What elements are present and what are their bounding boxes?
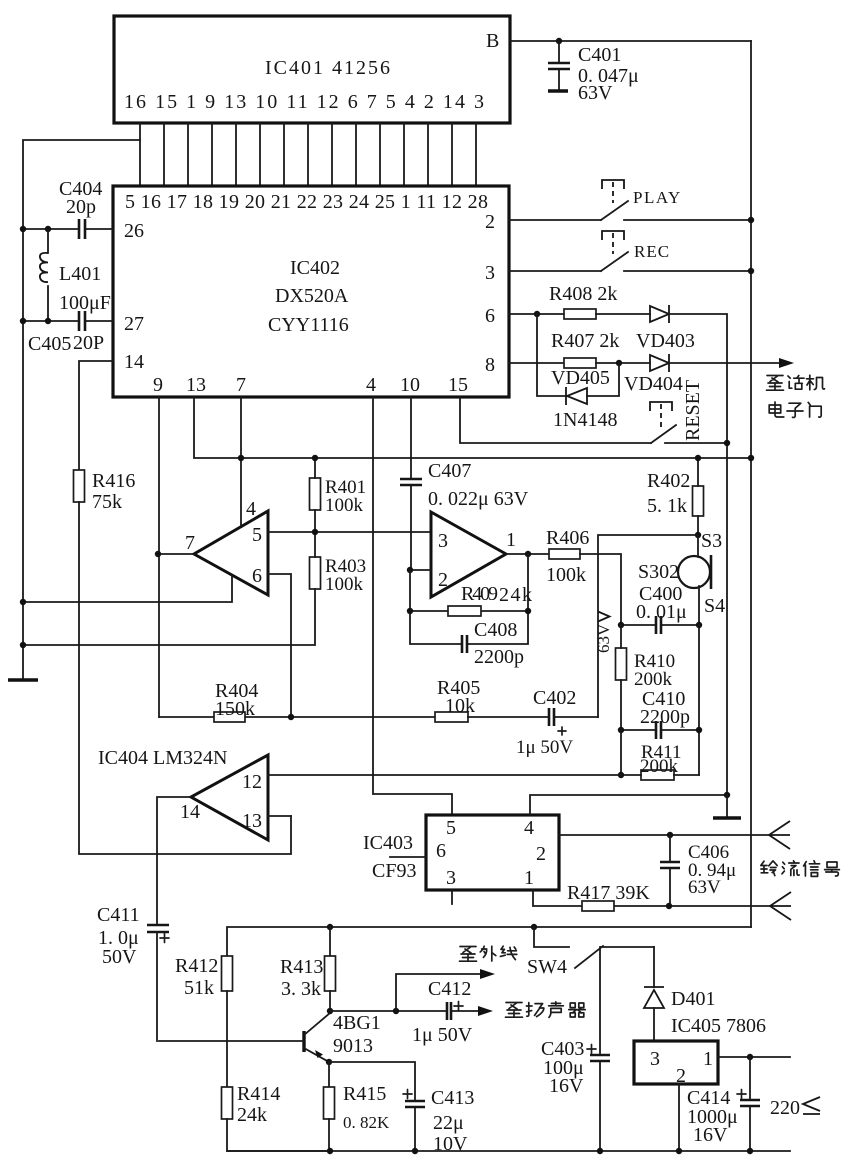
resistor R412 bbox=[222, 956, 233, 991]
svg-text:S4: S4 bbox=[704, 595, 725, 617]
diode D401 bbox=[653, 947, 655, 1041]
svg-text:6: 6 bbox=[252, 565, 262, 587]
resistor R413 bbox=[329, 927, 331, 956]
wire IC405 pin1 bbox=[718, 1056, 790, 1058]
wire IC403 pin4 to ground bbox=[530, 795, 727, 815]
resistor R402 bbox=[693, 486, 704, 516]
63V supply line bbox=[598, 535, 698, 717]
wire pin26 bbox=[23, 228, 113, 230]
wire B to right rail bbox=[510, 40, 751, 42]
wire pin13 to bias net bbox=[194, 397, 751, 458]
svg-text:R413: R413 bbox=[280, 956, 323, 978]
svg-text:C402: C402 bbox=[533, 687, 576, 709]
wire U1 pin6 bbox=[268, 574, 291, 717]
svg-text:1μ 50V: 1μ 50V bbox=[516, 737, 573, 758]
svg-text:IC404 LM324N: IC404 LM324N bbox=[98, 747, 227, 769]
svg-text:63V: 63V bbox=[688, 877, 721, 898]
svg-text:C407: C407 bbox=[428, 460, 471, 482]
svg-text:2200p: 2200p bbox=[640, 706, 690, 728]
svg-text:R416: R416 bbox=[92, 470, 135, 492]
svg-text:4: 4 bbox=[524, 817, 534, 839]
collector node wires bbox=[330, 1010, 478, 1012]
wire U2 pin2 bbox=[410, 569, 431, 571]
capacitor C412 bbox=[447, 1002, 451, 1020]
diode VD403 bbox=[650, 305, 669, 323]
svg-text:4: 4 bbox=[246, 498, 256, 520]
IC401 pin wires to IC402 bbox=[140, 123, 476, 186]
wire U1 out pin7 bbox=[158, 553, 194, 555]
wire IC403 pin3 stub bbox=[451, 890, 453, 904]
svg-text:VD403: VD403 bbox=[636, 330, 695, 352]
capacitor C406 bbox=[669, 835, 671, 906]
svg-text:IC405 7806: IC405 7806 bbox=[671, 1015, 766, 1037]
svg-text:6: 6 bbox=[485, 305, 495, 327]
svg-text:6: 6 bbox=[436, 840, 446, 862]
resistor R406 bbox=[549, 549, 580, 559]
svg-text:100k: 100k bbox=[325, 495, 364, 516]
svg-text:1μ 50V: 1μ 50V bbox=[412, 1024, 473, 1046]
svg-text:20P: 20P bbox=[73, 332, 104, 354]
op-amp U2 (IC404b) bbox=[431, 512, 506, 597]
svg-text:R415: R415 bbox=[343, 1083, 386, 1105]
svg-text:2200p: 2200p bbox=[474, 646, 524, 668]
svg-text:14: 14 bbox=[180, 801, 200, 823]
svg-text:5 16 17 18 19 20 21 22 23: 5 16 17 18 19 20 21 22 23 24 25 1 11 12 … bbox=[125, 191, 488, 213]
svg-text:S3: S3 bbox=[701, 530, 722, 552]
svg-text:REC: REC bbox=[634, 242, 670, 261]
svg-text:200k: 200k bbox=[634, 669, 673, 690]
svg-text:3. 3k: 3. 3k bbox=[281, 978, 321, 1000]
resistor R411 bbox=[641, 770, 674, 780]
wire pin9 down bbox=[158, 397, 160, 717]
node S3 bbox=[695, 532, 701, 538]
svg-text:15: 15 bbox=[448, 374, 468, 396]
op-amp U1 (IC404a) bbox=[194, 511, 268, 595]
svg-text:3: 3 bbox=[485, 262, 495, 284]
svg-text:3: 3 bbox=[438, 530, 448, 552]
svg-text:R408 2k: R408 2k bbox=[549, 283, 617, 305]
svg-text:2: 2 bbox=[438, 569, 448, 591]
ground (C401) bbox=[548, 89, 568, 92]
svg-text:2: 2 bbox=[536, 843, 546, 865]
svg-text:L401: L401 bbox=[59, 263, 101, 285]
wire U1 pin5 to U2 pin3 bbox=[268, 531, 431, 533]
ground rail bottom bbox=[227, 1150, 790, 1152]
ground (IC403) bbox=[713, 816, 741, 819]
svg-text:R407 2k: R407 2k bbox=[551, 330, 619, 352]
emitter node bbox=[326, 1059, 332, 1065]
wire / arrow to outside line bbox=[396, 974, 481, 1011]
connector arrow ring lower bbox=[770, 892, 791, 920]
svg-text:C412: C412 bbox=[428, 978, 471, 1000]
svg-text:R414: R414 bbox=[237, 1083, 280, 1105]
svg-text:CF93: CF93 bbox=[372, 860, 416, 882]
svg-text:1: 1 bbox=[506, 529, 516, 551]
label ring signal (Chinese) bbox=[761, 861, 840, 877]
speaker S302 bbox=[678, 556, 710, 588]
svg-text:16V: 16V bbox=[693, 1124, 728, 1146]
resistor R409 feedback bbox=[410, 554, 528, 644]
svg-text:3: 3 bbox=[650, 1048, 660, 1070]
node B/C401 junction bbox=[556, 38, 562, 44]
capacitor C405 bbox=[79, 311, 85, 331]
svg-text:VD404: VD404 bbox=[624, 373, 683, 395]
svg-text:24k: 24k bbox=[237, 1104, 267, 1126]
svg-text:5: 5 bbox=[252, 524, 262, 546]
arrow to loudspeaker bbox=[478, 1006, 493, 1016]
diode VD405 loop bbox=[537, 314, 619, 396]
svg-text:S302: S302 bbox=[638, 561, 679, 583]
capacitor C413 bbox=[329, 1062, 415, 1151]
svg-text:R402: R402 bbox=[647, 470, 690, 492]
switch SW4 bbox=[534, 927, 654, 947]
wire U3 out pin14 bbox=[157, 797, 191, 925]
resistor R410 bbox=[616, 648, 627, 680]
svg-text:63V: 63V bbox=[594, 623, 613, 653]
svg-text:C411: C411 bbox=[97, 904, 140, 926]
svg-text:10: 10 bbox=[400, 374, 420, 396]
capacitor C407 bbox=[400, 479, 422, 485]
inductor L401 bbox=[47, 229, 49, 321]
svg-text:5. 1k: 5. 1k bbox=[647, 495, 687, 517]
svg-text:1N4148: 1N4148 bbox=[553, 409, 617, 431]
IC401 U401 box bbox=[114, 16, 510, 123]
transistor Q1 4BG1 9013 bbox=[302, 1031, 305, 1052]
svg-text:2: 2 bbox=[676, 1065, 686, 1087]
svg-text:R406: R406 bbox=[546, 527, 589, 549]
capacitor C404 bbox=[79, 219, 85, 239]
svg-text:100k: 100k bbox=[325, 574, 364, 595]
svg-text:R417 39K: R417 39K bbox=[567, 882, 650, 904]
svg-text:5: 5 bbox=[446, 817, 456, 839]
resistor R408 bbox=[564, 309, 596, 319]
wire pin7 down to U1 pin4 bbox=[240, 397, 242, 527]
svg-text:9: 9 bbox=[153, 374, 163, 396]
svg-text:VD405: VD405 bbox=[551, 367, 610, 389]
svg-text:100k: 100k bbox=[546, 564, 586, 586]
svg-text:C405: C405 bbox=[28, 333, 71, 355]
wire IC403 pin6 stub bbox=[390, 856, 426, 858]
svg-text:C408: C408 bbox=[474, 619, 517, 641]
svg-text:10k: 10k bbox=[445, 695, 475, 717]
svg-text:220: 220 bbox=[770, 1097, 800, 1119]
label to loudspeaker (Chinese) bbox=[506, 1002, 586, 1018]
resistor R405 bbox=[435, 712, 468, 722]
svg-text:7: 7 bbox=[236, 374, 246, 396]
IC403 box bbox=[426, 815, 559, 890]
capacitor C402 bbox=[468, 716, 598, 718]
svg-text:1: 1 bbox=[703, 1048, 713, 1070]
label to outside line (Chinese) bbox=[460, 946, 517, 961]
svg-text:9013: 9013 bbox=[333, 1035, 373, 1057]
ground (left rail) bbox=[8, 678, 38, 681]
svg-text:63V: 63V bbox=[578, 82, 613, 104]
connector arrow ring upper bbox=[769, 821, 790, 849]
capacitor C410 bbox=[621, 625, 699, 775]
diode VD404 bbox=[650, 354, 669, 372]
svg-text:0. 022μ 63V: 0. 022μ 63V bbox=[428, 488, 529, 510]
wire pin27 bbox=[23, 320, 113, 322]
svg-text:0. 01μ: 0. 01μ bbox=[636, 601, 687, 623]
node pin26 rail bbox=[20, 226, 26, 232]
wire U2 out bbox=[506, 553, 549, 555]
svg-text:3: 3 bbox=[446, 867, 456, 889]
svg-text:R409: R409 bbox=[461, 583, 498, 605]
svg-text:13: 13 bbox=[242, 810, 262, 832]
IC405 box bbox=[634, 1041, 718, 1084]
switch REC bbox=[509, 270, 751, 272]
svg-text:B: B bbox=[486, 30, 499, 52]
svg-text:14: 14 bbox=[124, 351, 144, 373]
capacitor C414 bbox=[749, 1057, 751, 1151]
resistor R414 bbox=[222, 1087, 233, 1119]
IC402 U402 box bbox=[113, 186, 509, 397]
svg-text:0. 82K: 0. 82K bbox=[343, 1113, 390, 1132]
svg-text:100μF: 100μF bbox=[59, 292, 111, 314]
svg-text:R412: R412 bbox=[175, 955, 218, 977]
svg-text:4: 4 bbox=[366, 374, 376, 396]
wire pin4 down bbox=[373, 397, 452, 815]
svg-text:RESET: RESET bbox=[682, 380, 704, 441]
svg-text:DX520A: DX520A bbox=[275, 285, 349, 307]
wire / arrow to phone door bbox=[669, 362, 780, 364]
svg-text:27: 27 bbox=[124, 313, 144, 335]
svg-text:SW4: SW4 bbox=[527, 956, 567, 978]
wire B+ rail to amplifier bbox=[227, 927, 751, 956]
label to phone door (Chinese) bbox=[767, 375, 825, 390]
resistor R415 bbox=[328, 1062, 330, 1087]
capacitor C408 bbox=[462, 635, 467, 653]
switch RESET bbox=[460, 397, 727, 443]
svg-text:26: 26 bbox=[124, 220, 144, 242]
svg-text:CYY1116: CYY1116 bbox=[268, 314, 349, 336]
wire U3 pin13 bbox=[268, 815, 291, 817]
svg-text:50V: 50V bbox=[102, 946, 137, 968]
svg-text:150k: 150k bbox=[215, 698, 255, 720]
svg-text:4BG1: 4BG1 bbox=[333, 1012, 381, 1034]
capacitor C400 bbox=[621, 624, 699, 626]
svg-text:200k: 200k bbox=[640, 756, 679, 777]
svg-text:2: 2 bbox=[485, 211, 495, 233]
svg-text:13: 13 bbox=[186, 374, 206, 396]
wire pin14 to R416 line bbox=[79, 361, 113, 470]
svg-text:16V: 16V bbox=[549, 1075, 584, 1097]
wire pin8 bbox=[509, 362, 564, 364]
svg-text:PLAY: PLAY bbox=[633, 188, 682, 207]
svg-text:IC402: IC402 bbox=[290, 257, 340, 279]
wire pin10 down bbox=[410, 397, 412, 570]
resistor R401 bbox=[310, 478, 321, 510]
wire pin6 bbox=[509, 313, 564, 315]
svg-text:8: 8 bbox=[485, 354, 495, 376]
switch PLAY bbox=[509, 219, 751, 221]
wire IC403 pin2 to ring input bbox=[559, 834, 769, 836]
resistor R407 bbox=[564, 358, 596, 368]
capacitor C411 bbox=[147, 925, 169, 932]
svg-text:12: 12 bbox=[242, 771, 262, 793]
svg-text:7: 7 bbox=[185, 532, 195, 554]
wire left rail to IC401 pin16 bbox=[23, 140, 140, 680]
wire U3 pin12 bbox=[268, 774, 621, 776]
capacitor C403 bbox=[599, 947, 601, 1151]
wire IC403 pin1 / resistor R417 bbox=[533, 890, 770, 906]
svg-text:51k: 51k bbox=[184, 977, 214, 999]
svg-text:24k: 24k bbox=[499, 584, 532, 606]
svg-text:IC401 41256: IC401 41256 bbox=[265, 57, 390, 79]
svg-text:IC403: IC403 bbox=[363, 832, 413, 854]
svg-text:20p: 20p bbox=[66, 196, 96, 218]
svg-text:C401: C401 bbox=[578, 44, 621, 66]
svg-text:22μ: 22μ bbox=[433, 1112, 464, 1134]
svg-text:C413: C413 bbox=[431, 1087, 474, 1109]
resistor R416 bbox=[74, 470, 85, 502]
wire right rail B+ bbox=[750, 41, 752, 927]
wire IC405 pin2 bbox=[678, 1084, 680, 1151]
svg-text:75k: 75k bbox=[92, 491, 122, 513]
wire U1 bottom tap bbox=[23, 575, 232, 602]
svg-text:1: 1 bbox=[524, 867, 534, 889]
resistor R404 bbox=[159, 716, 435, 718]
svg-text:D401: D401 bbox=[671, 988, 715, 1010]
resistor R403 bbox=[310, 557, 321, 589]
capacitor C401 bbox=[558, 41, 560, 91]
